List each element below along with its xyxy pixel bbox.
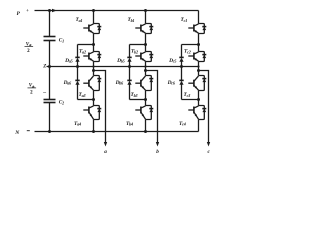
node junction Tb3-Tb4 (144, 98, 147, 101)
wire wire C1 to Z (49, 41, 51, 67)
node Z junction clamp c (180, 65, 183, 68)
wire wire Tb4 to N (145, 120, 147, 132)
transistor Tc2 (188, 52, 204, 62)
wire wire midpoint to Tc3 (198, 71, 200, 76)
current arrow on P rail (52, 9, 57, 13)
transistor Tc3 (188, 76, 204, 91)
wire clamp column Z-D6 phase b (129, 67, 131, 81)
wire clamp top wire phase a (78, 44, 94, 46)
svg-text:Db5: Db5 (116, 58, 125, 64)
transistor Ta2 (83, 52, 99, 62)
wire clamp bottom wire phase c (182, 99, 199, 101)
wire P rail (35, 10, 199, 12)
wire wire junction to Tb4 (145, 100, 147, 106)
wire clamp column lower phase c (181, 84, 183, 99)
node junction Tc1-Tc2 (197, 43, 200, 46)
node Z junction clamp b (128, 65, 131, 68)
transistor Ta4 (83, 106, 99, 120)
node Z crossing phase b (144, 65, 146, 67)
wire clamp column D5-Z phase a (77, 61, 79, 66)
wire output wire phase b (146, 71, 158, 144)
diode Db6 (127, 80, 131, 84)
wire wire Ta2 to midpoint (93, 62, 95, 71)
wire clamp top wire phase b (130, 44, 146, 46)
wire wire P to C1 (49, 11, 51, 37)
wire clamp column Z-D6 phase c (181, 67, 183, 81)
diode Dc5 (179, 57, 183, 61)
svg-text:Ta1: Ta1 (76, 17, 83, 23)
node Z crossing phase a (92, 65, 94, 67)
svg-text:N: N (14, 130, 20, 136)
svg-text:P: P (17, 11, 21, 17)
transistor Tc1 (188, 24, 204, 34)
output arrowhead phase a (104, 142, 107, 147)
wire clamp column upper phase a (77, 45, 79, 58)
wire wire junction to Ta4 (93, 100, 95, 106)
node N rail junction phase b (144, 130, 147, 133)
wire wire C2 to N (49, 103, 51, 132)
wire wire Tc3 to junction (198, 91, 200, 100)
node junction Ta3-Ta4 (92, 98, 95, 101)
transistor Ta1 (83, 24, 99, 34)
node P rail junction phase a (92, 9, 95, 12)
svg-text:Ta3: Ta3 (79, 92, 86, 98)
capacitor C2 (44, 100, 56, 103)
node output tap phase c (197, 69, 200, 72)
wire clamp column Z-D6 phase a (77, 67, 79, 81)
node P-cap junction (48, 9, 51, 12)
node output tap phase b (144, 69, 147, 72)
svg-text:b: b (156, 149, 159, 155)
wire clamp column D5-Z phase c (181, 61, 183, 66)
svg-text:Tc4: Tc4 (179, 121, 186, 127)
svg-text:Z: Z (42, 65, 46, 70)
node N rail junction phase a (92, 130, 95, 133)
wire wire P to Tb1 (145, 11, 147, 24)
wire Z rail (47, 66, 199, 68)
svg-text:Db6: Db6 (115, 80, 125, 86)
wire wire Ta3 to junction (93, 91, 95, 100)
svg-text:Tb4: Tb4 (126, 121, 133, 127)
svg-text:c: c (207, 149, 210, 155)
wire clamp bottom wire phase a (78, 99, 94, 101)
svg-text:2: 2 (27, 49, 30, 54)
wire wire Tb2 to midpoint (145, 62, 147, 71)
diode Da5 (75, 57, 79, 61)
wire wire junction to Tb2 (145, 45, 147, 52)
wire wire Ta1 to junction (93, 34, 95, 45)
node Z junction clamp a (76, 65, 79, 68)
wire wire P to Tc1 (198, 11, 200, 24)
node junction Tb1-Tb2 (144, 43, 147, 46)
svg-text:Tc3: Tc3 (184, 92, 191, 98)
node N-cap junction (48, 130, 51, 133)
wire wire junction to Tc2 (198, 45, 200, 52)
transistor Tc4 (188, 106, 204, 120)
node Z-cap junction (48, 65, 51, 68)
svg-text:Tc2: Tc2 (184, 49, 191, 55)
wire clamp column lower phase b (129, 84, 131, 99)
wire wire Ta4 to N (93, 120, 95, 132)
diode Da6 (75, 80, 79, 84)
wire wire junction to Ta2 (93, 45, 95, 52)
svg-text:a: a (104, 149, 107, 155)
node output tap phase a (92, 69, 95, 72)
Vdc/2 label lower (28, 84, 37, 96)
output arrowhead phase b (156, 142, 159, 147)
wire wire midpoint to Ta3 (93, 71, 95, 76)
wire output wire phase a (94, 71, 106, 144)
wire wire Tc1 to junction (198, 34, 200, 45)
node Z crossing phase c (197, 65, 199, 67)
wire N rail (35, 131, 199, 133)
transistor Tb1 (135, 24, 151, 34)
svg-text:Dc6: Dc6 (167, 80, 176, 86)
svg-text:Tb1: Tb1 (128, 17, 135, 23)
svg-text:Da5: Da5 (64, 58, 73, 64)
svg-text:2: 2 (30, 90, 33, 95)
minus sign at N (27, 130, 30, 132)
svg-text:C2: C2 (59, 100, 64, 106)
svg-text:Tc1: Tc1 (181, 17, 188, 23)
wire wire Z to C2 (49, 67, 51, 100)
node junction Tc3-Tc4 (197, 98, 200, 101)
wire wire Tc2 to midpoint (198, 62, 200, 71)
wire wire Tb3 to junction (145, 91, 147, 100)
wire wire junction to Tc4 (198, 100, 200, 106)
svg-text:Tb2: Tb2 (131, 49, 138, 55)
svg-text:C1: C1 (59, 38, 64, 44)
wire clamp bottom wire phase b (130, 99, 146, 101)
wire output wire phase c (199, 71, 209, 144)
svg-text:Da6: Da6 (63, 80, 73, 86)
wire wire midpoint to Tb3 (145, 71, 147, 76)
Vdc/2 label upper (25, 42, 34, 54)
svg-text:Dc5: Dc5 (168, 58, 176, 64)
wire clamp column upper phase b (129, 45, 131, 58)
diode Dc6 (179, 80, 183, 84)
wire wire P to Ta1 (93, 11, 95, 24)
wire wire Tb1 to junction (145, 34, 147, 45)
transistor Tb4 (135, 106, 151, 120)
svg-text:Ta2: Ta2 (79, 49, 86, 55)
node junction Ta1-Ta2 (92, 43, 95, 46)
capacitor C1 (44, 37, 56, 41)
svg-text:Tb3: Tb3 (131, 92, 138, 98)
svg-text:Ta4: Ta4 (74, 121, 81, 127)
minus sign near C2 (43, 92, 46, 94)
wire clamp column upper phase c (181, 45, 183, 58)
wire clamp column lower phase a (77, 84, 79, 99)
output arrowhead phase c (207, 142, 210, 147)
wire clamp top wire phase c (182, 44, 199, 46)
wire clamp column D5-Z phase b (129, 61, 131, 66)
transistor Tb3 (135, 76, 151, 91)
diode Db5 (127, 57, 131, 61)
transistor Tb2 (135, 52, 151, 62)
svg-text:+: + (26, 9, 29, 14)
transistor Ta3 (83, 76, 99, 91)
node P rail junction phase b (144, 9, 147, 12)
wire wire Tc4 to N (198, 120, 200, 132)
